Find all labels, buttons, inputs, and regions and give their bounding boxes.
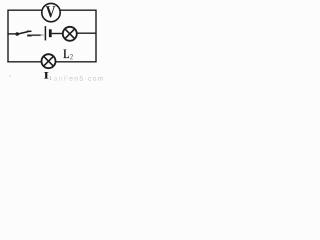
lamp L2 circle <box>63 27 77 41</box>
wire bottom-left <box>7 61 41 63</box>
wire right vertical <box>95 10 97 63</box>
label L2 subscript <box>70 54 73 59</box>
wire bottom-right <box>56 61 97 63</box>
wire switch-to-battery faded part <box>32 34 41 36</box>
wire battery-to-lamp L2 <box>52 33 63 35</box>
label L1 letter <box>44 72 49 79</box>
watermark part 1 <box>54 76 68 81</box>
label L1 subscript <box>50 76 52 80</box>
wire top-left <box>8 9 43 11</box>
switch S1 lever <box>18 32 29 35</box>
watermark part 2 <box>69 76 103 81</box>
wire fade tail near battery <box>41 34 44 36</box>
switch S1 dot <box>15 32 19 36</box>
speck <box>9 75 11 77</box>
wire lamp L2-to-right <box>77 32 96 34</box>
lamp L2 cross <box>65 29 75 39</box>
lamp L1 cross <box>44 56 54 66</box>
wire left vertical <box>7 10 9 63</box>
switch S1 lever tip dash <box>27 30 32 32</box>
wire switch-to-battery stub (dark part) <box>27 35 32 37</box>
battery B1 long plate <box>44 26 46 40</box>
lamp L1 circle <box>42 54 56 68</box>
wire middle-left stub <box>7 33 16 35</box>
voltmeter V1 letter <box>46 6 55 17</box>
voltmeter V1 circle <box>42 3 60 21</box>
wire top-right <box>60 9 97 11</box>
battery B1 short thick plate <box>49 29 52 37</box>
label L2 letter <box>63 49 69 58</box>
